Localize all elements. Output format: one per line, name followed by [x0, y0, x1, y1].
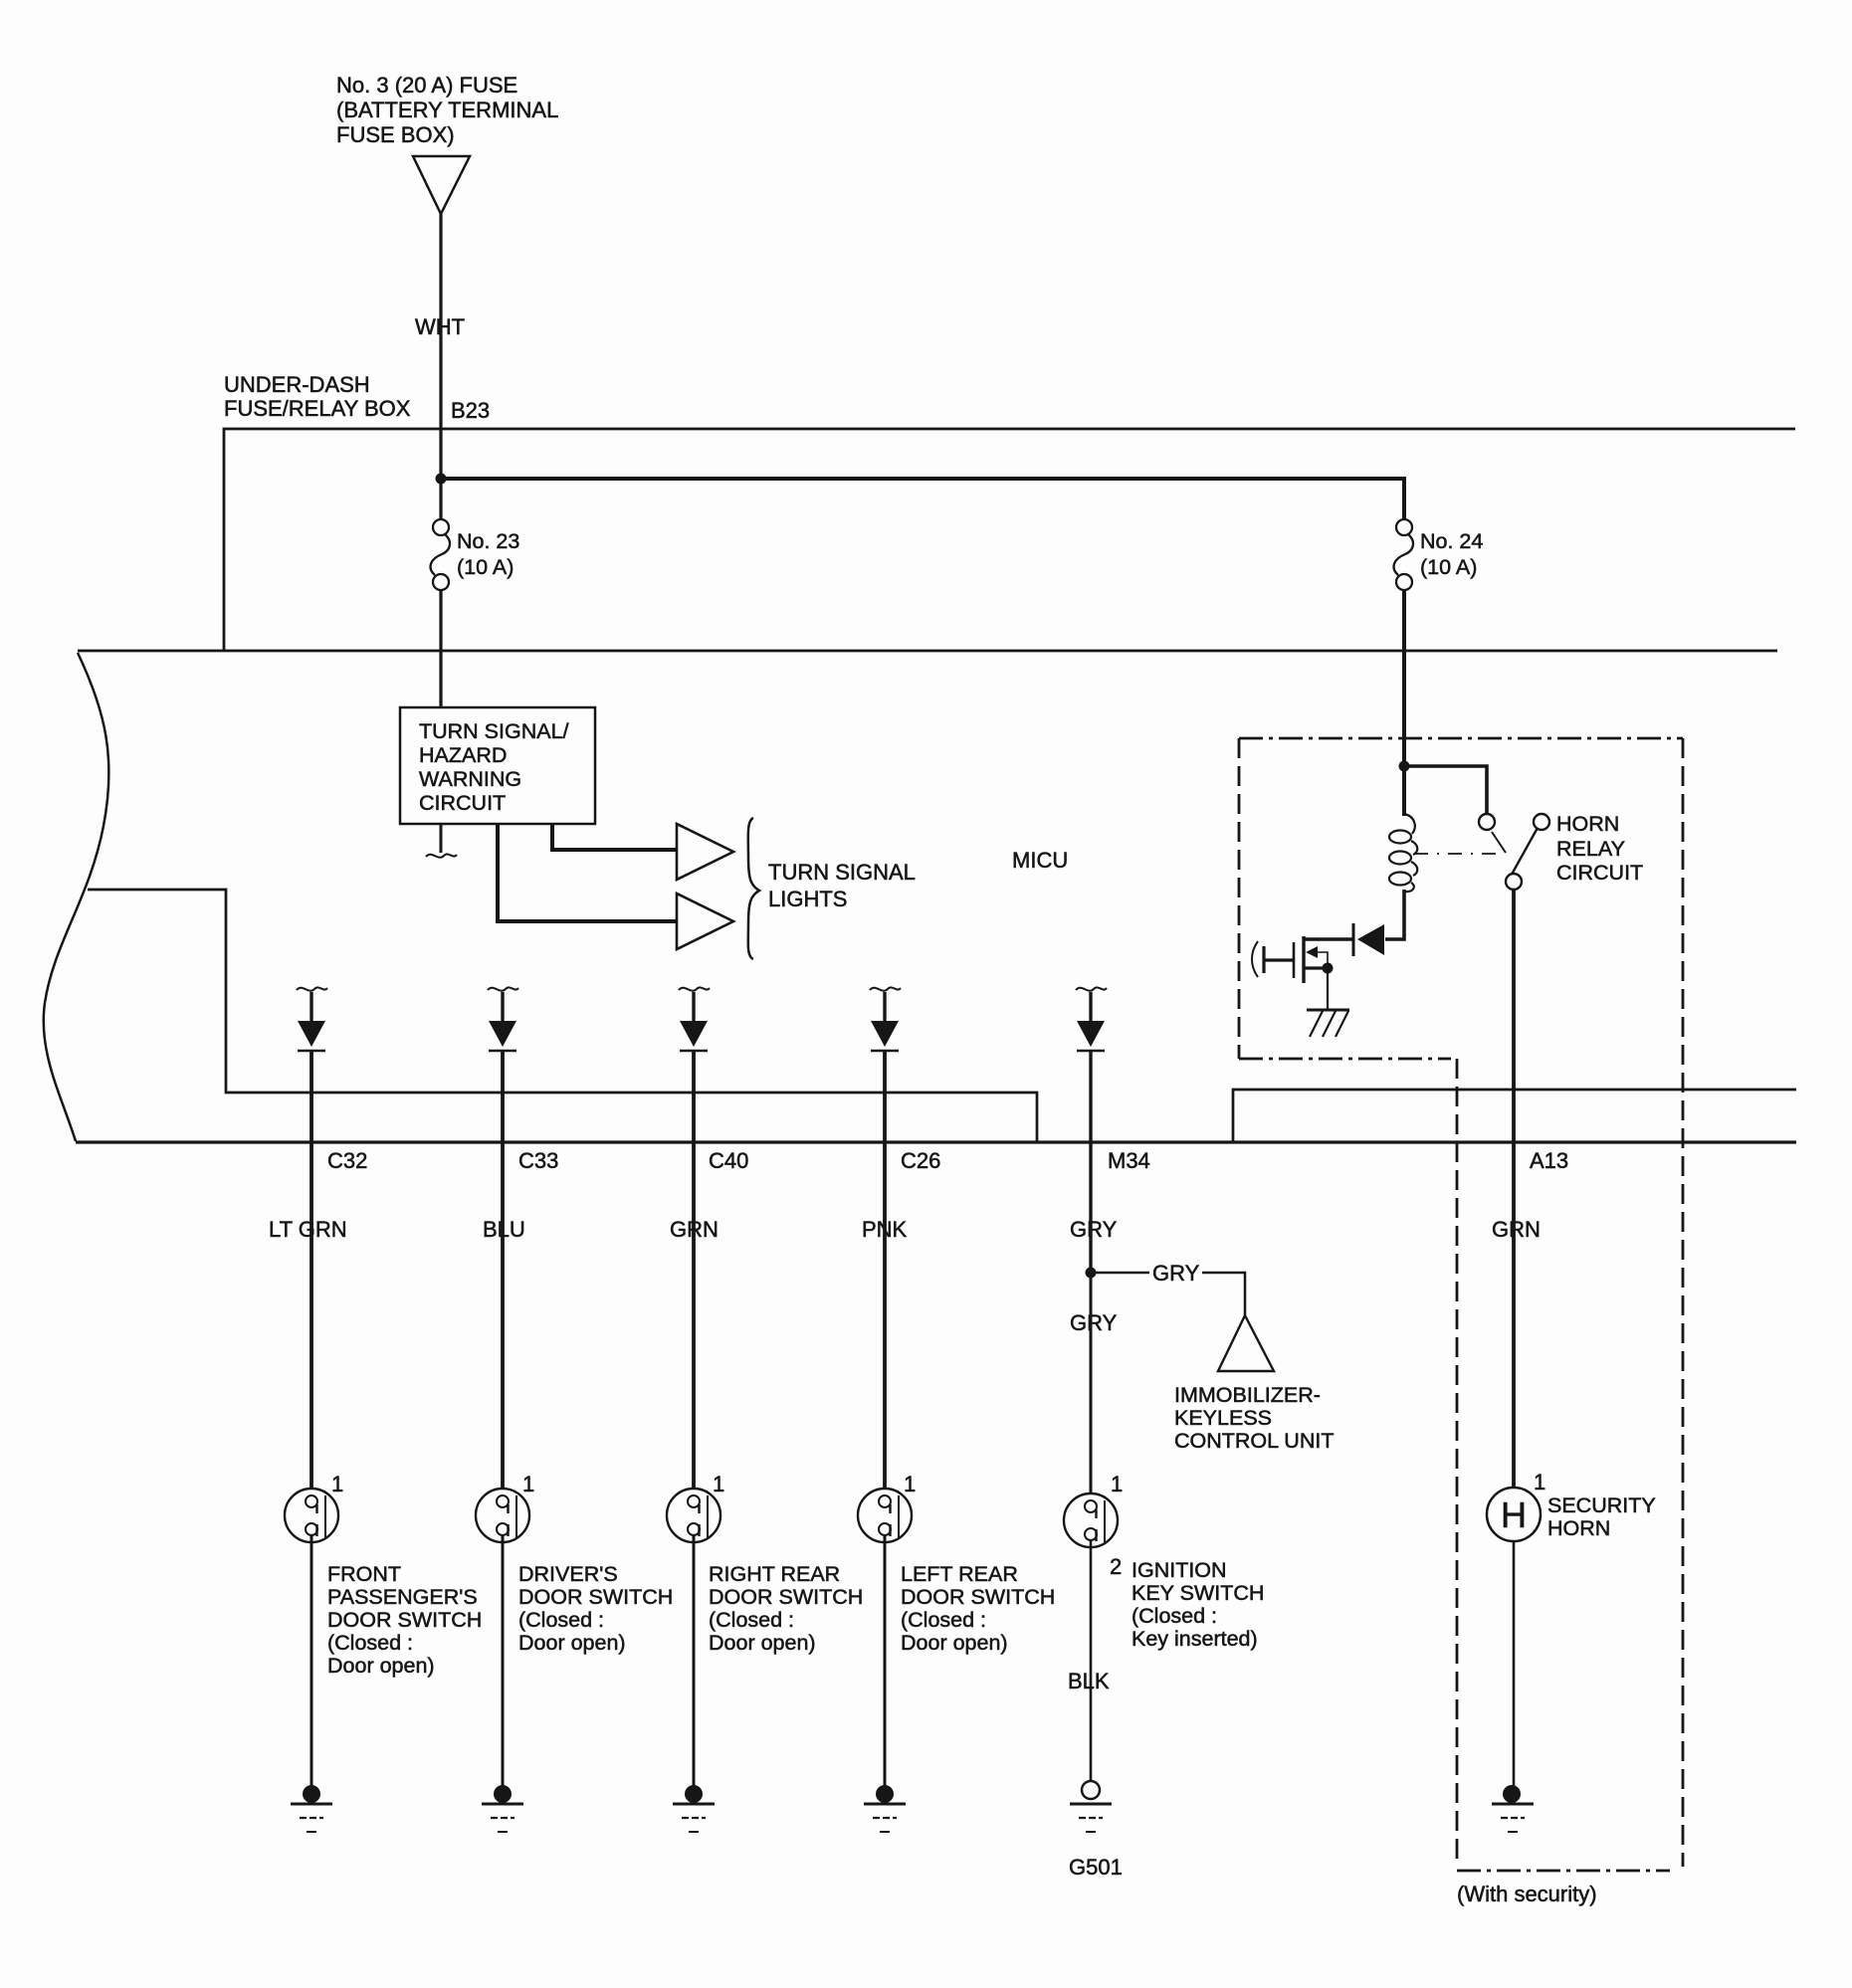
svg-text:1: 1	[1111, 1472, 1123, 1496]
wire from junction to relay contact	[1404, 766, 1487, 813]
MICU box inner step (right)	[1233, 1090, 1796, 1142]
svg-text:KEYLESS: KEYLESS	[1174, 1406, 1272, 1430]
svg-text:FUSE BOX): FUSE BOX)	[336, 122, 455, 147]
svg-text:DOOR SWITCH: DOOR SWITCH	[518, 1585, 673, 1609]
S3 label	[709, 1562, 863, 1655]
wire stub below box with continuation mark	[440, 824, 443, 853]
ground G1	[303, 1785, 320, 1803]
svg-text:LT GRN: LT GRN	[269, 1217, 347, 1242]
switch S3 right rear door switch	[667, 1489, 720, 1542]
wire M34 column lower	[1090, 1273, 1093, 1501]
svg-text:LIGHTS: LIGHTS	[768, 887, 847, 911]
MICU box top edge	[78, 650, 1777, 653]
wire B23 feed (vertical from triangle to fuse box)	[439, 214, 442, 520]
svg-text:Door open): Door open)	[901, 1631, 1008, 1655]
immobilizer-keyless control unit triangle	[1218, 1315, 1274, 1371]
under-dash fuse/relay box label	[224, 372, 411, 421]
wire C26 column	[883, 1051, 887, 1496]
svg-text:HAZARD: HAZARD	[419, 743, 507, 767]
S5 label	[1132, 1558, 1264, 1651]
svg-text:(Closed :: (Closed :	[518, 1608, 604, 1632]
svg-text:(10 A): (10 A)	[457, 555, 514, 579]
wire from fuse No.23 down to turn signal box	[439, 590, 442, 707]
S4 label	[901, 1562, 1055, 1655]
wire A13 (relay arm to security horn)	[1512, 890, 1516, 1489]
svg-text:No. 3 (20 A) FUSE: No. 3 (20 A) FUSE	[336, 73, 517, 98]
svg-text:1: 1	[713, 1472, 724, 1496]
svg-text:WARNING: WARNING	[419, 767, 521, 791]
wire C32 column	[309, 1051, 313, 1496]
svg-text:IMMOBILIZER-: IMMOBILIZER-	[1174, 1383, 1321, 1407]
transistor Q1 (MOSFET)	[1302, 936, 1305, 983]
turn signal light 1 (arrow symbol)	[677, 824, 733, 880]
wire C33 column	[501, 1051, 505, 1496]
ground G501 (open circle)	[1082, 1781, 1100, 1799]
S1 label	[327, 1562, 482, 1678]
svg-text:No. 23: No. 23	[457, 529, 519, 553]
svg-text:LEFT REAR: LEFT REAR	[901, 1562, 1018, 1586]
ground G2	[494, 1785, 512, 1803]
svg-text:FRONT: FRONT	[327, 1562, 401, 1586]
with-security dash region bottom edge	[1457, 1870, 1670, 1873]
relay contact throw tick	[1492, 832, 1506, 853]
fuse No.24 (10 A)	[1394, 519, 1413, 590]
svg-text:RELAY: RELAY	[1556, 837, 1625, 861]
horn relay circuit dash-dot box	[1239, 738, 1683, 1867]
svg-text:M34: M34	[1108, 1148, 1150, 1173]
switch S2 driver's door switch	[476, 1489, 529, 1542]
wire C40 column	[692, 1051, 696, 1496]
svg-text:GRY: GRY	[1070, 1217, 1118, 1242]
branch wire to immobilizer with inline GRY label	[1091, 1272, 1149, 1275]
svg-text:HORN: HORN	[1556, 812, 1619, 836]
wire color labels row	[269, 1217, 1541, 1242]
svg-text:IGNITION: IGNITION	[1132, 1558, 1227, 1582]
svg-text:(With security): (With security)	[1457, 1882, 1597, 1906]
relay switch arm pivot circle	[1534, 814, 1549, 830]
svg-text:C32: C32	[327, 1148, 367, 1173]
security horn H1	[1487, 1488, 1541, 1541]
svg-text:KEY SWITCH: KEY SWITCH	[1132, 1581, 1264, 1605]
svg-text:HORN: HORN	[1547, 1516, 1610, 1540]
diode to C33 output with continuation mark	[488, 987, 518, 990]
svg-text:CIRCUIT: CIRCUIT	[419, 791, 506, 815]
MICU box bottom edge	[76, 1140, 1796, 1143]
relay coil K1	[1404, 814, 1415, 834]
ground G4	[876, 1785, 894, 1803]
node junction on M34 wire	[1086, 1268, 1097, 1279]
wire to turn signal light 1	[552, 824, 677, 850]
svg-text:GRN: GRN	[1492, 1217, 1541, 1242]
turn signal light 2 (arrow symbol)	[677, 894, 733, 949]
svg-text:1: 1	[331, 1472, 343, 1496]
wire below S1	[310, 1535, 313, 1786]
svg-text:C40: C40	[709, 1148, 748, 1173]
svg-text:1: 1	[904, 1472, 916, 1496]
svg-text:PASSENGER'S: PASSENGER'S	[327, 1585, 478, 1609]
svg-text:FUSE/RELAY BOX: FUSE/RELAY BOX	[224, 396, 411, 421]
power feed triangle (battery terminal fuse box)	[413, 156, 470, 214]
svg-text:RIGHT REAR: RIGHT REAR	[709, 1562, 840, 1586]
wire from fuse No.24 down into MICU	[1402, 590, 1406, 816]
svg-text:TURN SIGNAL: TURN SIGNAL	[768, 860, 916, 885]
MICU box torn left edge	[44, 653, 109, 1141]
svg-text:Key inserted): Key inserted)	[1132, 1627, 1258, 1651]
svg-text:(BATTERY TERMINAL: (BATTERY TERMINAL	[336, 98, 558, 122]
fuse F1 label "No. 3 (20 A) FUSE (BATTERY TERMINAL FUSE BOX)"	[336, 73, 558, 147]
switch S4 left rear door switch	[858, 1489, 912, 1542]
svg-text:(Closed :: (Closed :	[709, 1608, 794, 1632]
wire below horn	[1513, 1541, 1516, 1786]
svg-text:DOOR SWITCH: DOOR SWITCH	[327, 1608, 482, 1632]
under-dash fuse/relay box outline	[224, 429, 1795, 651]
svg-text:DRIVER'S: DRIVER'S	[518, 1562, 618, 1586]
S2 label	[518, 1562, 673, 1655]
svg-text:Door open): Door open)	[518, 1631, 626, 1655]
relay contact fixed circle	[1479, 814, 1495, 830]
relay arm lower contact circle	[1506, 874, 1522, 890]
svg-text:Door open): Door open)	[327, 1654, 435, 1678]
relay mechanical link (dashed)	[1414, 853, 1502, 855]
svg-text:MICU: MICU	[1012, 848, 1068, 873]
fuse No.23 (10 A)	[431, 519, 450, 590]
diode to C26 output with continuation mark	[870, 987, 901, 990]
turn signal lights label	[768, 860, 916, 911]
brace for turn signal lights	[748, 818, 759, 959]
flyback diode D1	[1357, 924, 1384, 955]
diode to M34 output with continuation mark	[1076, 987, 1107, 990]
svg-text:CIRCUIT: CIRCUIT	[1556, 861, 1643, 885]
node junction at B23 bus	[436, 474, 447, 485]
svg-text:GRY: GRY	[1070, 1310, 1118, 1335]
svg-text:GRN: GRN	[670, 1217, 719, 1242]
MICU box inner step (left)	[88, 890, 1037, 1142]
switch S5 ignition key switch	[1064, 1493, 1118, 1547]
svg-text:C33: C33	[518, 1148, 558, 1173]
svg-text:Door open): Door open)	[709, 1631, 816, 1655]
svg-text:H: H	[1501, 1494, 1527, 1535]
svg-text:(Closed :: (Closed :	[1132, 1604, 1217, 1628]
pin labels row	[327, 1148, 1568, 1173]
svg-text:(Closed :: (Closed :	[901, 1608, 986, 1632]
svg-text:1: 1	[1534, 1470, 1545, 1494]
svg-text:BLU: BLU	[483, 1217, 525, 1242]
svg-text:PNK: PNK	[862, 1217, 908, 1242]
svg-text:DOOR SWITCH: DOOR SWITCH	[709, 1585, 863, 1609]
svg-text:WHT: WHT	[415, 314, 465, 339]
diode to C32 output with continuation mark	[297, 987, 327, 990]
svg-text:No. 24: No. 24	[1420, 529, 1483, 553]
svg-text:UNDER-DASH: UNDER-DASH	[224, 372, 370, 397]
turn signal / hazard warning circuit box U1	[400, 707, 595, 824]
svg-text:CONTROL UNIT: CONTROL UNIT	[1174, 1429, 1334, 1453]
wire below S3	[693, 1535, 696, 1786]
node junction on relay feed	[1399, 761, 1410, 772]
svg-text:(Closed :: (Closed :	[327, 1631, 413, 1655]
ground G5 (horn)	[1503, 1785, 1521, 1803]
wire bus from B23 junction to fuse No.24	[443, 479, 1404, 520]
pin 1 labels above switches	[331, 1470, 1545, 1496]
svg-text:GRY: GRY	[1152, 1261, 1200, 1286]
wire below S4	[884, 1535, 887, 1786]
svg-text:TURN SIGNAL/: TURN SIGNAL/	[419, 719, 569, 743]
svg-text:DOOR SWITCH: DOOR SWITCH	[901, 1585, 1055, 1609]
svg-text:G501: G501	[1069, 1855, 1123, 1880]
diode to C40 output with continuation mark	[679, 987, 710, 990]
wire below S5	[1090, 1540, 1093, 1781]
svg-text:C26: C26	[901, 1148, 940, 1173]
wire coil to diode elbow	[1385, 890, 1404, 939]
ground (MOSFET source)	[1307, 1009, 1349, 1012]
svg-text:1: 1	[522, 1472, 534, 1496]
svg-text:2: 2	[1110, 1554, 1122, 1579]
wire to turn signal light 2	[498, 824, 677, 921]
wire M34 column upper	[1089, 1051, 1092, 1274]
horn relay circuit label	[1556, 812, 1643, 885]
svg-text:BLK: BLK	[1068, 1669, 1110, 1693]
wire diode to MOSFET drain	[1304, 937, 1353, 941]
wire below S2	[502, 1535, 505, 1786]
svg-text:(10 A): (10 A)	[1420, 555, 1477, 579]
svg-text:SECURITY: SECURITY	[1547, 1493, 1656, 1517]
svg-text:A13: A13	[1530, 1148, 1568, 1173]
relay switch arm	[1508, 828, 1538, 882]
ground G3	[685, 1785, 703, 1803]
switch S1 front passenger's door switch	[285, 1489, 338, 1542]
with-security dash region left edge	[1456, 1059, 1459, 1867]
svg-text:B23: B23	[451, 398, 490, 423]
